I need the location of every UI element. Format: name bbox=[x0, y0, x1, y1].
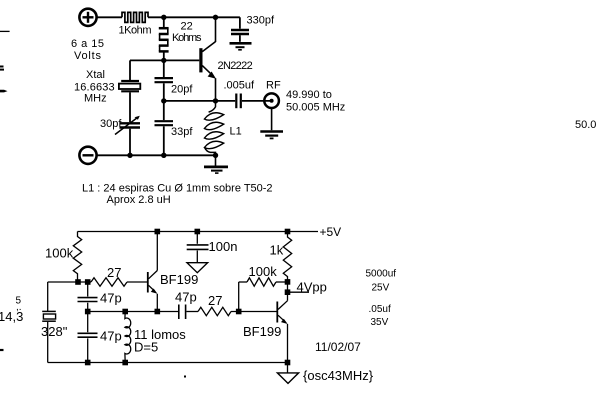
node dot rail L1 bbox=[213, 153, 218, 158]
node dot rail xtal bbox=[127, 153, 132, 158]
inductor L1 coil bbox=[209, 101, 216, 112]
svg-text:1k: 1k bbox=[270, 242, 284, 257]
svg-text:BF199: BF199 bbox=[243, 324, 281, 339]
svg-text:Volts: Volts bbox=[74, 50, 102, 62]
svg-text:47p: 47p bbox=[100, 328, 122, 343]
node square 1k/100k bbox=[285, 279, 291, 285]
capacitor C 47p series bbox=[178, 305, 180, 320]
svg-text:20pf: 20pf bbox=[171, 83, 193, 95]
crystal Xtal 16.6633 MHz bbox=[121, 80, 139, 82]
wire emitter node row bbox=[164, 100, 235, 102]
node square bottom rail ground bbox=[285, 360, 291, 366]
node square 47p top bbox=[85, 279, 91, 285]
transistor Q2 BF199 first bbox=[147, 272, 149, 293]
svg-text:50.0: 50.0 bbox=[575, 119, 596, 131]
wire crystal to 30pf bbox=[129, 92, 131, 122]
svg-text:100k: 100k bbox=[45, 245, 74, 260]
resistor R 22 Kohms bbox=[159, 17, 169, 60]
ground under RF bbox=[260, 130, 283, 133]
node square 4Vpp bbox=[285, 289, 291, 295]
svg-text:47p: 47p bbox=[100, 290, 122, 305]
capacitor C 100n bbox=[196, 232, 198, 244]
node square bottom rail inductor bbox=[122, 360, 128, 366]
svg-text:330pf: 330pf bbox=[247, 14, 275, 26]
svg-text:328": 328" bbox=[41, 324, 68, 339]
clipped fragment wire top-left bbox=[0, 30, 10, 32]
wire 20pf drop from base row bbox=[163, 60, 165, 77]
svg-text:Xtal: Xtal bbox=[86, 69, 105, 81]
wire 1k bottom to collector bbox=[287, 282, 289, 301]
capacitor C 47p first bbox=[87, 282, 89, 297]
wire middle row bbox=[88, 311, 178, 313]
node dot rail 33pf bbox=[161, 153, 166, 158]
ground under L1 bbox=[204, 166, 228, 169]
svg-text:11/02/07: 11/02/07 bbox=[315, 340, 361, 354]
node square bottom rail 47p bbox=[85, 360, 91, 366]
stray dot bbox=[184, 376, 186, 378]
ground osc43MHz bbox=[277, 373, 298, 384]
node square 100k bottom bbox=[75, 279, 81, 285]
capacitor C 33pf bbox=[163, 101, 165, 120]
clipped fragment tick left edge lower bbox=[0, 349, 4, 351]
wire 330pf drop bbox=[239, 17, 241, 28]
ground under 100n bbox=[187, 263, 208, 273]
svg-text:MHz: MHz bbox=[84, 93, 107, 105]
svg-text:5000uf: 5000uf bbox=[366, 268, 397, 279]
ground under 330pf bbox=[230, 42, 252, 45]
inductor 11 lomos D=5 bbox=[125, 312, 131, 363]
svg-text:47p: 47p bbox=[175, 289, 197, 304]
node dot base row bbox=[161, 58, 166, 63]
node dot at collector top bbox=[213, 15, 218, 20]
resistor R 27 second bbox=[198, 307, 231, 315]
capacitor C 20pf bbox=[155, 77, 174, 79]
svg-text:16.6633: 16.6633 bbox=[74, 82, 115, 94]
wire crystal branch down bbox=[47, 282, 49, 311]
wire 4Vpp stub bbox=[288, 291, 310, 293]
svg-text:Kohms: Kohms bbox=[172, 32, 202, 44]
svg-text:100n: 100n bbox=[209, 239, 238, 254]
svg-text:L1 : 24 espiras Cu Ø 1mm sobre: L1 : 24 espiras Cu Ø 1mm sobre T50-2 bbox=[82, 182, 273, 194]
crystal 28 inch bbox=[42, 310, 56, 312]
battery terminal + (6 a 15 Volts) bbox=[79, 9, 96, 26]
node square top rail 100n bbox=[195, 229, 201, 235]
svg-text:22: 22 bbox=[181, 21, 193, 33]
clipped fragment capacitor plates left edge bbox=[0, 66, 4, 68]
wire L1 to ground bbox=[215, 155, 217, 165]
capacitor C 330pf bbox=[231, 29, 249, 31]
wire 30pf to bottom rail bbox=[129, 129, 131, 156]
resistor R 100k vertical bbox=[73, 232, 81, 283]
junction squares bbox=[75, 229, 290, 366]
svg-text:.05uf: .05uf bbox=[369, 304, 391, 315]
svg-text:L1: L1 bbox=[230, 125, 242, 137]
resistor R 100k second bbox=[239, 281, 247, 283]
wire bottom rail top circuit bbox=[97, 154, 216, 156]
resistor R 1k bbox=[283, 232, 291, 283]
resistor R 27 first bbox=[91, 278, 127, 286]
svg-text:1Kohm: 1Kohm bbox=[119, 25, 152, 37]
svg-text:+5V: +5V bbox=[320, 225, 342, 239]
wire bottom rail bbox=[48, 362, 288, 364]
node square middle row 47p bbox=[85, 309, 91, 315]
svg-text:,.: ,. bbox=[16, 302, 22, 313]
resistor R 1Kohm bbox=[122, 12, 148, 22]
node dot emitter/L1 bbox=[213, 98, 218, 103]
wire RF to ground bbox=[271, 108, 273, 130]
svg-text:35V: 35V bbox=[371, 317, 389, 328]
svg-text:RF: RF bbox=[266, 79, 281, 91]
svg-text:100k: 100k bbox=[249, 264, 278, 279]
wire 100k left branch bbox=[238, 282, 240, 312]
wire R1 to collector node bbox=[148, 16, 240, 18]
node square top rail Q2 collector bbox=[155, 229, 161, 235]
svg-text:.005uf: .005uf bbox=[224, 79, 256, 91]
node dot 20pf/33pf bbox=[161, 98, 166, 103]
svg-text:33pf: 33pf bbox=[171, 126, 193, 138]
wire + terminal to R1 bbox=[97, 16, 122, 18]
capacitor C 47p second bbox=[87, 312, 89, 333]
trimmer capacitor 30pf bbox=[120, 122, 141, 124]
node square top rail 1k bbox=[285, 229, 291, 235]
svg-text:2N2222: 2N2222 bbox=[218, 60, 253, 72]
svg-text:{osc43MHz}: {osc43MHz} bbox=[303, 368, 374, 383]
wire down to crystal bbox=[129, 60, 131, 81]
svg-text:BF199: BF199 bbox=[160, 272, 198, 287]
svg-text:50.005 MHz: 50.005 MHz bbox=[286, 102, 345, 114]
svg-text:6 a 15: 6 a 15 bbox=[71, 38, 104, 50]
svg-text:27: 27 bbox=[208, 293, 222, 308]
transistor Q1 2N2222 bbox=[199, 48, 202, 72]
connector RF output bbox=[264, 93, 279, 108]
svg-text:30pf: 30pf bbox=[100, 118, 122, 130]
battery terminal - bbox=[79, 147, 96, 164]
svg-text:27: 27 bbox=[107, 265, 121, 280]
wire base row bbox=[130, 59, 199, 61]
wire base row left bbox=[48, 281, 91, 283]
node square middle row emitter bbox=[155, 309, 161, 315]
node square middle row inductor bbox=[122, 309, 128, 315]
clipped fragment arrow left edge bbox=[0, 90, 8, 93]
wire +5V top rail bbox=[78, 231, 319, 233]
svg-text:25V: 25V bbox=[372, 283, 390, 294]
svg-text:Aprox 2.8 uH: Aprox 2.8 uH bbox=[107, 194, 171, 206]
svg-text:4Vpp: 4Vpp bbox=[297, 280, 327, 295]
svg-text:D=5: D=5 bbox=[134, 339, 158, 354]
capacitor C .005uf bbox=[235, 94, 237, 109]
node dot at 22K top bbox=[161, 15, 166, 20]
node square middle row 100k branch bbox=[236, 309, 242, 315]
wire 27 to Q2 base bbox=[231, 311, 277, 313]
wire emitter to ground bbox=[287, 363, 289, 373]
transistor Q3 BF199 second bbox=[276, 302, 278, 323]
svg-text:49.990 to: 49.990 to bbox=[286, 89, 332, 101]
wire 27 to Q2 base bbox=[127, 281, 148, 283]
